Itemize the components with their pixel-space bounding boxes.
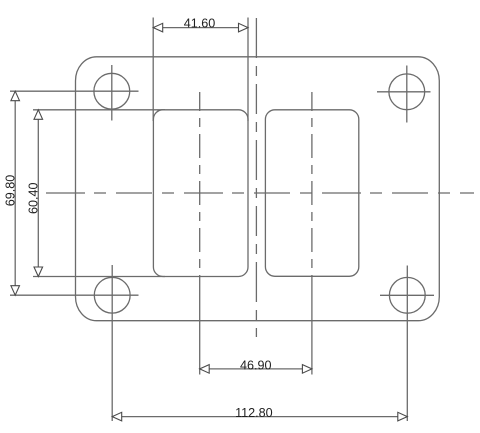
- center mark top-left bolt vertical: [111, 65, 113, 121]
- svg-text:60.40: 60.40: [27, 182, 41, 214]
- center mark top-right bolt horizontal: [377, 91, 431, 93]
- arrow 41.60 left: [153, 23, 163, 32]
- centerline horizontal: [46, 192, 474, 194]
- dim line 69.80: [14, 91, 16, 295]
- center mark bottom-left bolt horizontal / ext 69.80 bottom: [10, 294, 139, 296]
- svg-text:69.80: 69.80: [4, 175, 18, 207]
- bolt hole top-right: [389, 74, 425, 110]
- arrow 46.90 left: [200, 365, 210, 374]
- center mark bottom-right bolt horizontal: [380, 294, 434, 296]
- svg-text:41.60: 41.60: [184, 17, 216, 31]
- ext 41.60 right: [247, 18, 249, 122]
- arrow 60.40 down: [34, 267, 43, 277]
- dim line 46.90: [200, 368, 312, 370]
- dim line 60.40: [37, 110, 39, 277]
- bolt hole bottom-right: [389, 277, 425, 313]
- ext 60.40 top: [33, 109, 165, 111]
- arrow 69.80 up: [11, 91, 20, 101]
- ext 46.90 left (below port): [199, 277, 201, 375]
- arrow 41.60 right: [239, 23, 249, 32]
- dim line 112.80: [112, 416, 407, 418]
- svg-text:46.90: 46.90: [240, 358, 272, 372]
- bolt hole top-left: [94, 73, 130, 109]
- center mark top-left bolt horizontal / ext 69.80 top: [10, 90, 139, 92]
- arrow 69.80 down: [11, 286, 20, 296]
- port left: [153, 110, 248, 277]
- arrow 112.80 left: [112, 412, 122, 421]
- dim line 41.60: [153, 27, 248, 29]
- arrow 46.90 right: [302, 365, 312, 374]
- centerline vertical main: [255, 18, 257, 337]
- plate outline: [76, 57, 440, 321]
- ext 60.40 bottom: [33, 276, 165, 278]
- centerline port right: [311, 92, 313, 276]
- arrow 112.80 right: [398, 412, 408, 421]
- bolt hole bottom-left: [94, 277, 130, 313]
- svg-text:112.80: 112.80: [235, 406, 273, 420]
- center mark + ext 112.80 right vertical: [406, 266, 408, 422]
- center mark top-right bolt vertical: [406, 66, 408, 123]
- centerline port left: [199, 92, 201, 277]
- ext 46.90 right (below port): [311, 276, 313, 374]
- port right: [265, 110, 358, 276]
- ext 41.60 left: [152, 18, 154, 122]
- center mark + ext 112.80 left vertical: [111, 265, 113, 421]
- arrow 60.40 up: [34, 110, 43, 120]
